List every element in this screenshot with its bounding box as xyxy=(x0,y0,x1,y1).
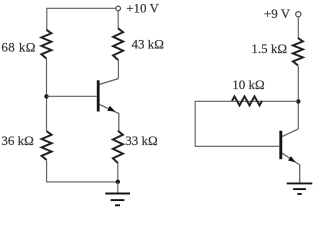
svg-text:33 kΩ: 33 kΩ xyxy=(125,133,157,148)
svg-text:+10 V: +10 V xyxy=(126,1,159,16)
svg-text:68 kΩ: 68 kΩ xyxy=(1,39,35,54)
svg-text:10 kΩ: 10 kΩ xyxy=(232,77,264,92)
svg-text:36 kΩ: 36 kΩ xyxy=(1,133,33,148)
svg-text:+9 V: +9 V xyxy=(264,6,291,21)
svg-text:43 kΩ: 43 kΩ xyxy=(132,37,164,52)
svg-text:1.5 kΩ: 1.5 kΩ xyxy=(251,41,287,56)
